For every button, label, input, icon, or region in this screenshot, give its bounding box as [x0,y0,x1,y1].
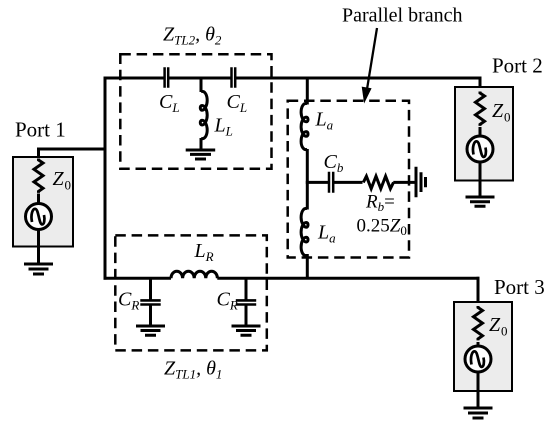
inductor La (upper) [301,103,308,149]
resistor Rb [363,176,393,189]
svg-text:Z: Z [489,314,501,336]
capacitor CL (left series) [165,67,169,87]
resistor Z0 (Port 3) [474,306,483,340]
capacitor CL (right series) [232,67,236,87]
wire: Port 1 feed [37,148,107,160]
wire: Port 3 source to ground [477,372,480,408]
wire: Port 2 source to ground [479,162,482,198]
transmission line section TL1 (dashed box) [115,235,266,350]
wire: Cb to Rb segment [334,181,363,184]
AC source (Port 2) [467,136,493,162]
svg-text:0.25Z0: 0.25Z0 [357,216,407,239]
wire: Port 2 drop [479,77,482,89]
wire: CR right top lead [245,278,248,299]
ground (CR right) [232,326,261,335]
resistor Z0 (Port 1) [34,159,43,193]
wire: Port 3 drop [477,277,480,303]
wire: CR left top lead [149,278,152,299]
svg-text:0: 0 [504,110,511,125]
wire: Port 1 resistor to source [37,194,40,204]
capacitor Cb [329,172,333,193]
capacitor CR (left shunt) [140,300,160,304]
wire: top branch line (node between TL2 caps and Port 2) [104,77,482,80]
wire: Cb branch left segment [306,181,329,184]
wire: LL top lead [200,78,203,92]
wire: bottom branch line (TL1 line to Port 3) [104,277,480,280]
Port 3 termination box [454,302,512,391]
wire: Port 1 source to ground [37,230,40,265]
svg-text:Parallel branch: Parallel branch [342,5,463,27]
ground (Cb-Rb branch, sideways) [416,167,426,198]
ground (LL shunt) [186,150,216,159]
wire: Port 2 resistor to source [479,127,482,137]
svg-text:Port 1: Port 1 [15,118,66,142]
svg-text:0: 0 [501,324,508,339]
transmission line section TL2 (dashed box) [120,54,271,169]
inductor LL [200,91,207,138]
Port 1 termination box [13,157,73,247]
wire: Port 3 resistor to source [477,342,480,347]
AC source (Port 3) [465,346,491,372]
inductor La (lower) [301,208,308,255]
wire: CR right bottom lead [245,306,248,327]
ground (Port 2) [466,197,495,206]
ground (CR left) [136,326,165,335]
svg-text:Port 2: Port 2 [492,54,543,78]
wire: main vertical trunk [104,77,107,280]
Port 2 termination box [455,87,513,181]
svg-text:Port 3: Port 3 [494,275,545,299]
svg-text:Z: Z [53,168,65,190]
resistor Z0 (Port 2) [476,92,485,126]
arrow: Parallel branch pointer [362,28,377,104]
wire: parallel branch top lead [306,77,309,105]
parallel branch (dashed box) [288,101,409,258]
ground (Port 1) [24,264,53,274]
AC source (Port 1) [26,204,52,230]
wire: parallel branch bottom lead [306,254,309,280]
wire: LL bottom lead [200,138,203,150]
capacitor CR (right shunt) [236,300,256,304]
inductor LR [171,271,217,278]
svg-text:Z: Z [492,100,504,122]
wire: between La coils [306,149,309,210]
ground (Port 3) [464,408,493,418]
wire: Rb to ground segment [393,181,416,184]
svg-text:0: 0 [65,178,72,193]
wire: CR left bottom lead [149,306,152,327]
